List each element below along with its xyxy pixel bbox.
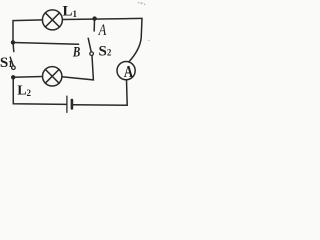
wire — [63, 18, 142, 19]
wire — [93, 19, 95, 31]
ammeter A — [117, 62, 135, 80]
lamp L1 — [42, 10, 62, 30]
switch S1 — [10, 57, 15, 69]
node A — [92, 16, 96, 20]
node dot — [11, 40, 15, 44]
wire — [129, 18, 142, 62]
svg-text:A: A — [124, 62, 134, 81]
wire — [62, 56, 94, 80]
speck — [138, 2, 150, 42]
battery — [67, 96, 72, 112]
wire — [73, 80, 127, 106]
node junction — [11, 75, 15, 79]
wire — [13, 20, 43, 42]
wire — [12, 45, 15, 52]
lamp L2 — [43, 67, 62, 86]
switch S2 — [88, 38, 93, 55]
svg-text:B: B — [72, 45, 80, 61]
svg-text:A: A — [98, 22, 107, 39]
wire — [13, 43, 79, 45]
wire — [13, 76, 42, 79]
wire — [13, 77, 66, 104]
